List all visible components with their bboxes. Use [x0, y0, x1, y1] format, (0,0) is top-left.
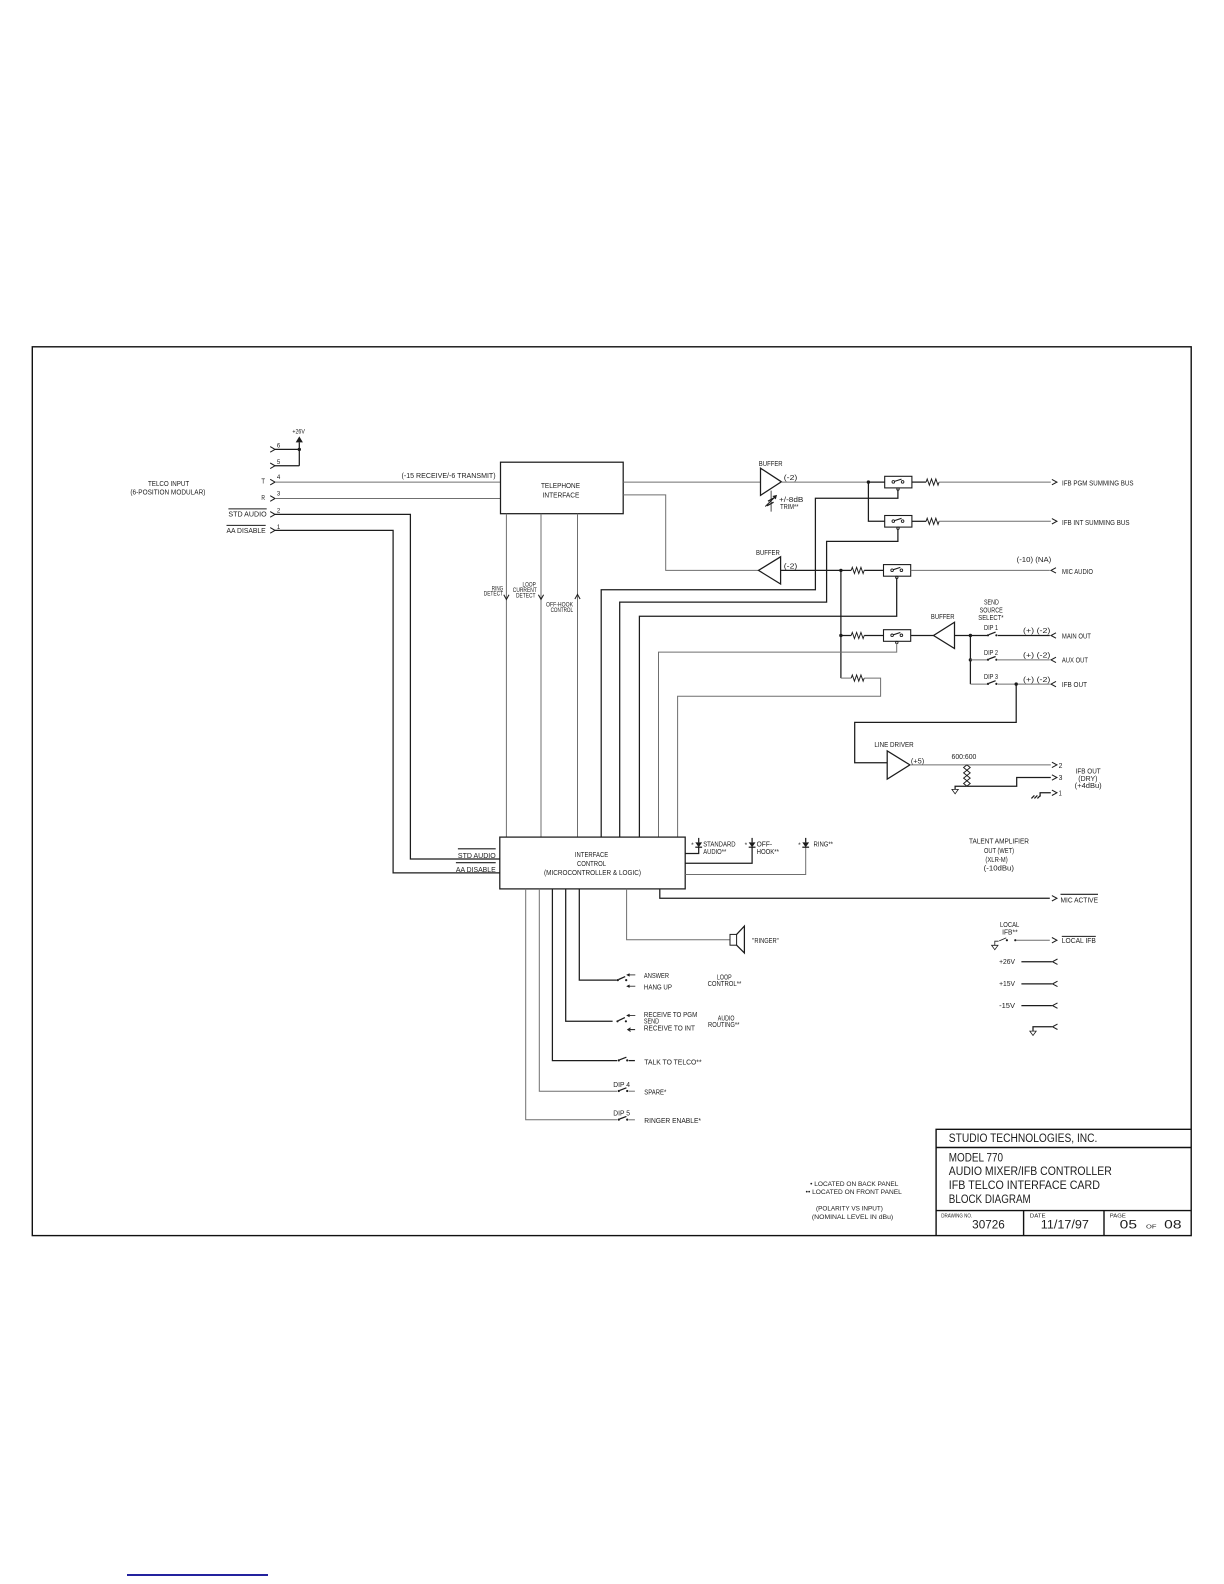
op-amp buffer A1 (receive)	[761, 468, 782, 495]
svg-text:DIP 2: DIP 2	[984, 650, 998, 657]
svg-text:05: 05	[1120, 1220, 1137, 1232]
svg-text:STD AUDIO: STD AUDIO	[458, 853, 496, 860]
wire audio routing group	[566, 889, 613, 1021]
wire loop control group	[579, 889, 617, 980]
wire buffer A2 input	[781, 569, 841, 571]
svg-text:(+) (-2): (+) (-2)	[1023, 677, 1050, 684]
svg-text:T: T	[261, 478, 265, 485]
svg-text:(-15 RECEIVE/-6 TRANSMIT): (-15 RECEIVE/-6 TRANSMIT)	[402, 473, 496, 480]
arrow ANSWER	[628, 974, 636, 976]
wire mic bus tap to interface control (ringer audio)	[841, 677, 851, 679]
svg-text:AA DISABLE: AA DISABLE	[227, 528, 267, 535]
wire LOCAL IFB	[1016, 939, 1050, 941]
svg-text:DIP 3: DIP 3	[984, 674, 998, 681]
resistor R2	[926, 518, 939, 524]
wire secondary to XLR pin3	[967, 778, 1051, 787]
pin 6	[270, 447, 275, 453]
svg-text:MIC AUDIO: MIC AUDIO	[1062, 569, 1093, 576]
svg-text:(POLARITY VS INPUT): (POLARITY VS INPUT)	[816, 1207, 883, 1213]
arrow XLR pin2	[1052, 762, 1057, 767]
svg-text:(DRY): (DRY)	[1078, 776, 1097, 783]
wire T to telephone interface	[275, 481, 501, 483]
svg-text:(-10) (NA): (-10) (NA)	[1017, 557, 1052, 564]
resistor R3	[851, 567, 864, 573]
svg-text:SOURCE: SOURCE	[980, 608, 1003, 615]
svg-text:INTERFACE: INTERFACE	[543, 493, 580, 500]
svg-text:(+5): (+5)	[911, 758, 924, 765]
svg-text:4: 4	[277, 475, 281, 481]
junction pin6/+26V	[298, 448, 301, 451]
svg-text:INTERFACE: INTERFACE	[575, 852, 609, 859]
wire to IFB PGM bus	[939, 481, 1051, 483]
LED STANDARD AUDIO	[695, 842, 702, 847]
svg-text:AUDIO**: AUDIO**	[703, 849, 726, 856]
svg-text:*: *	[798, 843, 801, 849]
svg-text:BUFFER: BUFFER	[756, 550, 780, 557]
wire STD AUDIO to interface control	[275, 514, 500, 859]
svg-text:IFB OUT: IFB OUT	[1062, 682, 1088, 689]
svg-text:(+4dBu): (+4dBu)	[1075, 783, 1102, 790]
svg-text:TALK TO TELCO**: TALK TO TELCO**	[644, 1059, 702, 1066]
svg-text:1: 1	[1059, 790, 1062, 797]
arrow IFB INT	[1052, 519, 1057, 524]
svg-text:STANDARD: STANDARD	[703, 841, 735, 848]
wire MAIN OUT	[998, 635, 1050, 637]
svg-text:*: *	[745, 843, 748, 849]
pin 5	[270, 463, 275, 469]
svg-text:TELEPHONE: TELEPHONE	[541, 483, 580, 490]
wire buffer output to summing node	[781, 481, 868, 483]
wire to line driver	[855, 684, 1017, 763]
arrow IFB PGM	[1052, 479, 1057, 484]
trim pot +/-8dB	[770, 491, 772, 512]
svg-text:(-2): (-2)	[784, 564, 798, 571]
wire to OFF-HOOK LED	[685, 847, 752, 863]
wire S1 to resistor	[912, 481, 926, 483]
svg-text:DIP 1: DIP 1	[984, 625, 998, 632]
svg-text:DRAWING NO.: DRAWING NO.	[941, 1213, 972, 1219]
wire AA DISABLE to interface control	[275, 530, 500, 873]
wire XLR pin1 to chassis	[1040, 793, 1051, 797]
switch TALK TO TELCO	[618, 1059, 620, 1061]
svg-text:DIP 4: DIP 4	[613, 1082, 630, 1089]
svg-text:(-2): (-2)	[784, 475, 798, 482]
svg-text:HOOK**: HOOK**	[757, 849, 780, 856]
arrow RECEIVE TO PGM	[628, 1015, 636, 1017]
pin 2 STD AUDIO	[270, 512, 275, 518]
node DIP tree	[969, 634, 972, 637]
switch loop control	[617, 979, 619, 981]
svg-text:LOCAL: LOCAL	[1000, 922, 1019, 929]
svg-text:TALENT AMPLIFIER: TALENT AMPLIFIER	[969, 838, 1029, 845]
arrow XLR pin1	[1052, 790, 1057, 795]
wire mic bus down to send switch	[840, 570, 842, 678]
svg-text:AUX OUT: AUX OUT	[1062, 658, 1089, 665]
power +26V arrow	[296, 436, 303, 442]
arrow LOCAL IFB	[1052, 938, 1057, 943]
svg-text:3: 3	[1059, 775, 1063, 782]
svg-text:•• LOCATED ON FRONT PANEL: •• LOCATED ON FRONT PANEL	[806, 1190, 903, 1196]
svg-text:+15V: +15V	[999, 981, 1015, 988]
svg-text:MIC ACTIVE: MIC ACTIVE	[1061, 897, 1099, 904]
arrow MIC AUDIO	[1051, 568, 1056, 573]
svg-text:2: 2	[277, 509, 281, 515]
svg-text:OF: OF	[1146, 1225, 1157, 1231]
svg-text:OFF-: OFF-	[757, 841, 773, 848]
wire S4 control	[659, 643, 897, 837]
svg-text:(+) (-2): (+) (-2)	[1023, 653, 1050, 660]
svg-text:• LOCATED ON BACK PANEL: • LOCATED ON BACK PANEL	[810, 1182, 899, 1188]
node summing feed	[867, 480, 870, 483]
node send tap	[839, 634, 842, 637]
svg-text:(+) (-2): (+) (-2)	[1023, 628, 1050, 635]
svg-text:DATE: DATE	[1030, 1213, 1046, 1219]
wire telephone interface to buffer	[623, 481, 760, 483]
wire MIC ACTIVE	[660, 889, 1050, 898]
svg-text:"RINGER": "RINGER"	[752, 938, 779, 945]
svg-text:LINE DRIVER: LINE DRIVER	[874, 742, 913, 749]
svg-text:RECEIVE TO INT: RECEIVE TO INT	[644, 1026, 696, 1033]
wire DIP 4 SPARE	[539, 889, 617, 1091]
drawing border frame	[32, 347, 1191, 1236]
node IFB OUT to line driver	[1015, 682, 1018, 685]
wire to RING LED	[685, 847, 806, 874]
svg-text:IFB TELCO INTERFACE CARD: IFB TELCO INTERFACE CARD	[949, 1180, 1100, 1192]
svg-text:CONTROL: CONTROL	[577, 861, 606, 868]
resistor R1	[926, 479, 939, 485]
svg-text:CONTROL: CONTROL	[551, 608, 574, 614]
op-amp buffer A2 (transmit)	[759, 557, 781, 584]
svg-text:SELECT*: SELECT*	[978, 615, 1004, 622]
wire IFB OUT send	[998, 683, 1050, 685]
wire node to S2	[868, 482, 884, 521]
svg-text:HANG UP: HANG UP	[644, 984, 672, 991]
svg-text:(-10dBu): (-10dBu)	[984, 866, 1014, 873]
svg-text:MODEL 770: MODEL 770	[949, 1152, 1003, 1164]
svg-text:ROUTING**: ROUTING**	[708, 1022, 740, 1029]
svg-text:ANSWER: ANSWER	[644, 973, 669, 980]
arrow XLR pin3	[1052, 775, 1057, 780]
svg-text:STUDIO TECHNOLOGIES, INC.: STUDIO TECHNOLOGIES, INC.	[949, 1133, 1098, 1145]
ground symbol rail	[1030, 1031, 1036, 1035]
resistor R5	[851, 675, 864, 681]
svg-text:OUT (WET): OUT (WET)	[984, 848, 1014, 855]
svg-text:(MICROCONTROLLER & LOGIC): (MICROCONTROLLER & LOGIC)	[544, 870, 641, 877]
svg-text:600:600: 600:600	[952, 754, 977, 761]
node DIP 2	[969, 658, 972, 661]
title block frame	[936, 1129, 1191, 1235]
resistor R4	[851, 632, 864, 638]
wire to IFB INT bus	[939, 520, 1051, 522]
svg-text:DIP 5: DIP 5	[613, 1110, 630, 1117]
wire OFF-HOOK CONTROL	[577, 514, 579, 837]
svg-text:+26V: +26V	[292, 429, 305, 435]
analog switch S2 (IFB INT)	[885, 516, 912, 528]
svg-text:2: 2	[1059, 763, 1063, 770]
svg-text:+26V: +26V	[999, 959, 1015, 966]
LED RING	[802, 842, 809, 847]
wire S3 control	[639, 578, 896, 838]
svg-text:-15V: -15V	[999, 1003, 1015, 1010]
hyperlink underline artifact	[127, 1574, 268, 1576]
svg-text:AUDIO MIXER/IFB CONTROLLER: AUDIO MIXER/IFB CONTROLLER	[949, 1166, 1112, 1178]
arrow MIC ACTIVE	[1052, 896, 1057, 901]
svg-text:(XLR-M): (XLR-M)	[985, 857, 1007, 864]
node mic bus	[839, 569, 842, 572]
svg-text:DETECT: DETECT	[516, 594, 536, 600]
svg-text:TELCO INPUT: TELCO INPUT	[148, 481, 190, 488]
analog switch S4 (send)	[884, 630, 911, 642]
svg-text:MAIN OUT: MAIN OUT	[1062, 633, 1092, 640]
svg-text:RING**: RING**	[814, 842, 834, 849]
wire TALK TO TELCO	[552, 889, 617, 1061]
svg-text:BUFFER: BUFFER	[931, 614, 955, 621]
wire S2 control	[620, 529, 898, 838]
ground input rail	[1033, 1027, 1052, 1031]
wire transmit into telephone interface	[623, 495, 758, 571]
svg-text:30726: 30726	[972, 1220, 1005, 1232]
svg-text:11/17/97: 11/17/97	[1041, 1220, 1089, 1232]
arrow HANG UP	[628, 985, 636, 987]
svg-text:08: 08	[1164, 1220, 1181, 1232]
svg-text:IFB OUT: IFB OUT	[1076, 768, 1102, 775]
wire R to telephone interface	[275, 498, 501, 500]
svg-text:AA DISABLE: AA DISABLE	[456, 867, 496, 874]
svg-text:CONTROL**: CONTROL**	[708, 981, 742, 988]
svg-text:IFB PGM SUMMING BUS: IFB PGM SUMMING BUS	[1062, 481, 1134, 488]
arrow RECEIVE TO INT	[628, 1029, 635, 1031]
svg-text:3: 3	[277, 492, 281, 498]
svg-text:(NOMINAL LEVEL IN dBu): (NOMINAL LEVEL IN dBu)	[812, 1215, 893, 1221]
chassis ground XLR	[1031, 795, 1040, 798]
pin 1 AA DISABLE	[270, 528, 275, 534]
svg-text:R: R	[261, 495, 265, 502]
svg-text:(6-POSITION MODULAR): (6-POSITION MODULAR)	[130, 489, 205, 496]
op-amp LINE DRIVER	[887, 751, 910, 779]
svg-text:SPARE*: SPARE*	[644, 1090, 666, 1097]
svg-text:STD AUDIO: STD AUDIO	[228, 512, 267, 519]
pin 4 T	[270, 479, 275, 485]
switch audio routing	[616, 1020, 618, 1022]
op-amp buffer A3 (send)	[934, 622, 955, 648]
wire primary to ground	[955, 786, 967, 789]
wire buffer A3 output	[955, 635, 971, 637]
pin 3 R	[270, 496, 275, 502]
ground transformer	[952, 789, 958, 793]
wire MIC AUDIO bus	[911, 569, 1050, 571]
wire S4 to buffer A3	[911, 635, 934, 637]
svg-text:IFB**: IFB**	[1002, 930, 1018, 937]
svg-text:BLOCK DIAGRAM: BLOCK DIAGRAM	[949, 1194, 1031, 1206]
svg-text:*: *	[691, 843, 694, 849]
svg-text:6: 6	[277, 444, 281, 450]
analog switch S3 (MIC AUDIO)	[884, 565, 911, 577]
wire LOOP CURRENT DETECT	[540, 514, 542, 837]
svg-text:BUFFER: BUFFER	[759, 461, 783, 468]
speaker RINGER	[730, 934, 737, 945]
wire to STANDARD AUDIO LED	[685, 847, 699, 853]
block U1 TELEPHONE INTERFACE	[501, 462, 624, 514]
svg-text:SEND: SEND	[984, 599, 999, 606]
wire DIP 5 RINGER ENABLE	[526, 889, 618, 1120]
wire +26V to pins 5/6	[298, 442, 300, 465]
wire line driver output / XLR pin2	[910, 764, 1051, 766]
svg-text:PAGE: PAGE	[1110, 1213, 1126, 1219]
svg-text:RINGER ENABLE*: RINGER ENABLE*	[644, 1118, 701, 1125]
svg-text:TRIM**: TRIM**	[780, 504, 799, 511]
wire to ringer speaker	[627, 889, 730, 940]
svg-text:DETECT: DETECT	[484, 592, 504, 598]
wire AUX OUT	[998, 659, 1050, 661]
wire RING DETECT	[505, 514, 507, 837]
block U2 INTERFACE CONTROL	[500, 837, 685, 889]
wire S2 to resistor	[912, 520, 926, 522]
svg-text:LOCAL IFB: LOCAL IFB	[1062, 938, 1096, 945]
LED OFF-HOOK	[749, 842, 756, 847]
analog switch S1 (IFB PGM)	[885, 476, 912, 488]
svg-text:IFB INT SUMMING BUS: IFB INT SUMMING BUS	[1062, 520, 1130, 527]
wire S1 control	[601, 489, 898, 837]
